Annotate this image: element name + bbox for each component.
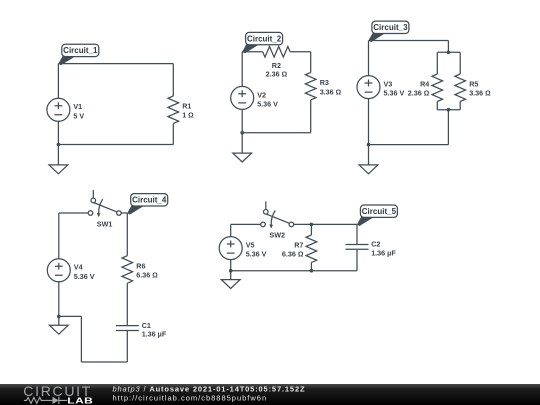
svg-text:SW1: SW1	[97, 219, 113, 228]
svg-text:SW2: SW2	[269, 231, 285, 240]
svg-text:V4: V4	[74, 263, 83, 272]
svg-text:1.36 µF: 1.36 µF	[371, 248, 396, 257]
svg-text:LAB: LAB	[67, 397, 93, 405]
svg-text:5.36 V: 5.36 V	[246, 250, 267, 259]
svg-text:2.36 Ω: 2.36 Ω	[266, 69, 288, 78]
svg-text:6.36 Ω: 6.36 Ω	[136, 270, 158, 279]
svg-text:Circuit_2: Circuit_2	[247, 34, 282, 43]
svg-text:5 V: 5 V	[73, 111, 84, 120]
svg-text:R7: R7	[294, 241, 303, 250]
svg-text:Circuit_1: Circuit_1	[63, 46, 98, 55]
svg-text:R1: R1	[182, 102, 191, 111]
svg-text:bhatp3 / Autosave 2021-01-14T0: bhatp3 / Autosave 2021-01-14T05:05:57.15…	[113, 384, 306, 393]
svg-text:5.36 V: 5.36 V	[257, 100, 278, 109]
svg-text:http://circuitlab.com/cb8885pu: http://circuitlab.com/cb8885pubfw6n	[113, 394, 268, 403]
svg-text:V1: V1	[73, 102, 82, 111]
svg-text:Circuit_3: Circuit_3	[373, 23, 408, 32]
svg-text:6.36 Ω: 6.36 Ω	[282, 250, 304, 259]
svg-text:2.36 Ω: 2.36 Ω	[408, 89, 430, 98]
svg-text:V3: V3	[384, 80, 393, 89]
svg-text:R4: R4	[420, 80, 429, 89]
svg-text:Circuit_4: Circuit_4	[132, 196, 167, 205]
svg-text:V5: V5	[246, 241, 255, 250]
svg-text:1 Ω: 1 Ω	[182, 111, 194, 120]
svg-text:V2: V2	[257, 90, 266, 99]
svg-text:R6: R6	[136, 261, 145, 270]
svg-text:3.36 Ω: 3.36 Ω	[469, 89, 491, 98]
svg-text:R3: R3	[320, 78, 329, 87]
svg-text:5.36 V: 5.36 V	[384, 89, 405, 98]
svg-text:1.36 µF: 1.36 µF	[142, 329, 167, 338]
svg-text:Circuit_5: Circuit_5	[362, 207, 397, 216]
svg-text:3.36 Ω: 3.36 Ω	[320, 88, 342, 97]
svg-text:C2: C2	[371, 240, 380, 249]
svg-text:R5: R5	[469, 80, 478, 89]
svg-text:5.36 V: 5.36 V	[74, 272, 95, 281]
